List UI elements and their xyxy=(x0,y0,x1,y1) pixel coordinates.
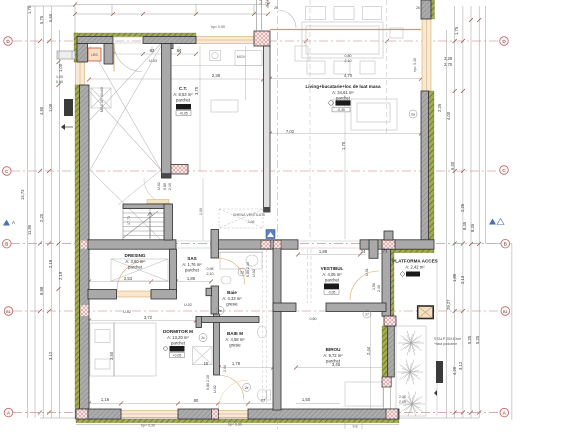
grid bubble B1 right xyxy=(501,307,510,316)
svg-text:MGV: MGV xyxy=(237,55,246,59)
boiler fixture outside left wall xyxy=(57,51,75,59)
kitchen island xyxy=(211,100,238,112)
stair arrow xyxy=(148,212,153,238)
wall central vertical lower xyxy=(273,248,281,410)
svg-text:2,36: 2,36 xyxy=(399,395,406,399)
svg-text:1,78: 1,78 xyxy=(232,361,241,366)
svg-text:A: 4,58 m²: A: 4,58 m² xyxy=(225,337,245,342)
upper storey wall above pier (light) xyxy=(257,0,262,31)
svg-text:1,88: 1,88 xyxy=(319,249,328,254)
grid axis A dashed line xyxy=(13,412,500,414)
svg-text:SAS: SAS xyxy=(187,256,196,261)
right dimension chain lines xyxy=(447,6,512,420)
insulation left wall upper xyxy=(74,33,78,62)
svg-text:GHENA VENTILATII: GHENA VENTILATII xyxy=(233,213,265,217)
svg-text:U-01: U-01 xyxy=(365,268,369,276)
column pier hall (pink hatch) xyxy=(171,165,188,175)
column pier bottom wall right (pink hatch) xyxy=(386,409,398,419)
wall top-left pier vertical xyxy=(104,44,113,65)
svg-text:9,8: 9,8 xyxy=(353,425,358,429)
svg-text:hp= 0,30: hp= 0,30 xyxy=(141,424,155,428)
door arc baie upper xyxy=(219,259,245,285)
svg-text:parchet: parchet xyxy=(325,278,340,283)
room label birou xyxy=(323,347,343,364)
svg-text:U-03: U-03 xyxy=(149,59,157,63)
svg-text:0,98: 0,98 xyxy=(207,267,214,271)
sofa xyxy=(351,99,397,130)
svg-text:2,53: 2,53 xyxy=(124,276,133,281)
svg-text:5,75: 5,75 xyxy=(39,15,44,24)
kitchen counter top xyxy=(235,51,262,66)
circle marker 2a xyxy=(409,110,417,118)
svg-text:2e: 2e xyxy=(218,309,222,313)
svg-text:5,25: 5,25 xyxy=(475,335,480,344)
section marker bar right xyxy=(434,361,443,396)
circle marker 2e xyxy=(243,383,251,391)
blue section triangles right xyxy=(489,219,504,225)
grid bubble D right xyxy=(500,37,509,46)
wall vestibul-birou segment right xyxy=(326,303,386,312)
wall bottom segment 2 xyxy=(178,409,218,419)
section marker bar left xyxy=(61,99,73,130)
wall baie M left xyxy=(214,314,220,375)
circle marker 2c xyxy=(199,334,207,342)
dimension tick marks right chain xyxy=(453,18,482,415)
svg-text:LEG: LEG xyxy=(91,53,98,57)
svg-text:3,75: 3,75 xyxy=(194,86,199,95)
insulation left wall lower xyxy=(75,85,80,419)
svg-text:11,95: 11,95 xyxy=(27,224,32,235)
dimension tick marks left chain xyxy=(38,39,61,415)
insulation right wall top xyxy=(431,0,435,19)
svg-text:BIROU: BIROU xyxy=(326,347,341,352)
wall sas-baie vertical upper xyxy=(211,230,219,259)
label stalp xyxy=(434,337,461,346)
C.T. floor cross hatch xyxy=(90,46,161,170)
desk birou xyxy=(345,382,383,406)
wall dresing bottom left xyxy=(88,290,117,300)
svg-text:4,20: 4,20 xyxy=(452,366,457,375)
column pier bottom wall sas (pink hatch) xyxy=(212,409,219,419)
svg-text:U-02: U-02 xyxy=(157,182,161,190)
room label dresing xyxy=(125,253,146,270)
svg-text:U-02: U-02 xyxy=(213,385,217,393)
wall right main xyxy=(421,91,429,249)
wall central vertical upper xyxy=(264,46,271,212)
svg-text:6,50: 6,50 xyxy=(450,161,455,170)
svg-text:A: 9,72 m²: A: 9,72 m² xyxy=(323,353,343,358)
svg-text:0,60: 0,60 xyxy=(310,317,317,321)
svg-text:26: 26 xyxy=(274,6,278,10)
svg-text:2,65: 2,65 xyxy=(399,400,406,404)
column pier top (pink hatch) xyxy=(254,31,270,46)
right outer boundary with step xyxy=(486,6,512,420)
svg-text:2,10: 2,10 xyxy=(168,183,172,190)
shrub 2 xyxy=(397,360,423,385)
svg-text:84: 84 xyxy=(177,48,182,53)
svg-text:1,56: 1,56 xyxy=(372,283,376,290)
wall stub above B right xyxy=(384,231,393,240)
svg-text:B: B xyxy=(504,242,507,247)
svg-text:1,50: 1,50 xyxy=(302,397,311,402)
insulation bottom wall xyxy=(76,419,399,423)
svg-text:2,00: 2,00 xyxy=(199,208,203,215)
platforma acces outline xyxy=(396,326,426,416)
bed dormitor M xyxy=(90,323,156,376)
svg-text:2,19: 2,19 xyxy=(48,259,53,268)
svg-text:hp= 5,30: hp= 5,30 xyxy=(413,58,417,72)
right rotated dimension texts xyxy=(437,26,480,375)
wall sas-baie vertical lower xyxy=(211,286,219,314)
svg-text:gresie: gresie xyxy=(226,302,238,307)
svg-text:1,75: 1,75 xyxy=(454,26,459,35)
window top wall hp=0,90 xyxy=(196,37,254,44)
door arc hall xyxy=(144,179,169,204)
svg-text:1,75: 1,75 xyxy=(27,5,32,14)
svg-text:3,45: 3,45 xyxy=(332,362,341,367)
wardrobe dormitor with X xyxy=(193,347,213,365)
dining chairs bottom row xyxy=(307,61,325,74)
wall cap right window end xyxy=(421,91,429,96)
svg-text:hp= 0,90: hp= 0,90 xyxy=(228,423,242,427)
svg-text:VESTIBUL: VESTIBUL xyxy=(321,266,344,271)
svg-text:3,12: 3,12 xyxy=(48,351,53,360)
svg-text:A: 8,53 m²: A: 8,53 m² xyxy=(173,92,193,97)
grid axis D dashed line xyxy=(13,40,500,42)
svg-text:+0,05: +0,05 xyxy=(179,112,188,116)
sink baie M xyxy=(258,326,267,338)
svg-text:1,85: 1,85 xyxy=(452,273,457,282)
svg-text:83: 83 xyxy=(150,48,155,53)
grid bubble B1 left xyxy=(4,307,13,316)
thin lines above top-left door xyxy=(113,37,143,43)
room label sas xyxy=(182,256,202,273)
svg-text:2c: 2c xyxy=(201,336,205,340)
svg-text:4,00: 4,00 xyxy=(446,111,451,120)
svg-text:0,60: 0,60 xyxy=(56,80,63,84)
grid bubble A left xyxy=(4,408,13,417)
wall B segment left xyxy=(88,240,176,249)
circle marker baie xyxy=(238,268,246,276)
grid axis C dashed line xyxy=(11,170,500,172)
svg-text:5,65: 5,65 xyxy=(48,13,53,22)
bottom dimension chain lines xyxy=(40,418,479,429)
svg-text:DRESING: DRESING xyxy=(125,253,146,258)
sink baie upper xyxy=(221,276,231,284)
grid axis vertical dashed line xyxy=(277,0,279,429)
svg-text:2,66: 2,66 xyxy=(248,220,255,224)
door opening dresing (tan) xyxy=(117,291,151,297)
svg-text:0,80 2,10: 0,80 2,10 xyxy=(246,262,250,277)
wardrobe dresing with X xyxy=(111,259,168,281)
wall left main xyxy=(80,85,89,409)
circle marker entry xyxy=(363,310,371,318)
svg-text:2e: 2e xyxy=(245,386,249,390)
window bottom wall baie M hp=0,90 xyxy=(218,411,248,418)
stairs xyxy=(123,209,164,241)
chair right of table xyxy=(390,28,403,38)
wall top middle segment xyxy=(143,37,196,44)
wall baie M top xyxy=(196,317,259,323)
lintel band above living (terrace edge) xyxy=(270,29,421,31)
interior dimension tick slashes xyxy=(73,3,423,406)
window left wall xyxy=(76,62,85,85)
room label platforma acces xyxy=(392,259,438,277)
svg-text:4,70: 4,70 xyxy=(344,73,353,78)
svg-text:2,70: 2,70 xyxy=(444,62,453,67)
wall B segment middle xyxy=(211,240,298,249)
top frame tick xyxy=(267,0,269,8)
svg-text:73: 73 xyxy=(383,249,388,254)
insulation right wall mid xyxy=(429,91,435,244)
svg-text:2,13: 2,13 xyxy=(460,275,465,284)
dining table xyxy=(302,22,383,58)
svg-text:1,00: 1,00 xyxy=(56,75,63,79)
svg-text:STALP 25X40cm: STALP 25X40cm xyxy=(434,337,461,341)
grid bubble B right xyxy=(501,239,510,248)
wall top-left segment xyxy=(77,37,113,44)
svg-text:B1: B1 xyxy=(6,310,11,314)
svg-text:U-02: U-02 xyxy=(252,269,256,277)
wall dresing right xyxy=(170,249,177,292)
wall stub below top middle xyxy=(165,44,173,49)
svg-text:4,90: 4,90 xyxy=(39,106,44,115)
room label baie M xyxy=(225,331,245,348)
wall cap hall xyxy=(162,174,172,179)
svg-text:C.T.: C.T. xyxy=(179,86,187,91)
svg-text:3,50: 3,50 xyxy=(109,351,114,360)
blue shaft marker xyxy=(266,230,275,239)
wall B segment right xyxy=(360,240,434,249)
grid bubble C left xyxy=(3,167,12,176)
svg-text:DORMITOR M: DORMITOR M xyxy=(163,329,193,334)
svg-text:2,48: 2,48 xyxy=(265,0,269,4)
window bottom wall dormitor hp=0,30 xyxy=(121,411,178,418)
shrub 3 xyxy=(399,392,425,417)
door arc entry D-01 xyxy=(350,271,379,300)
svg-text:1,00: 1,00 xyxy=(58,63,63,72)
svg-text:-0,05: -0,05 xyxy=(328,291,336,295)
left dimension chain lines xyxy=(28,6,60,418)
svg-text:8,45: 8,45 xyxy=(462,221,467,230)
svg-text:2,26: 2,26 xyxy=(437,103,442,112)
svg-text:A: 3,60 m²: A: 3,60 m² xyxy=(125,259,145,264)
svg-text:2,38: 2,38 xyxy=(212,73,221,78)
door arc terrace xyxy=(278,10,296,28)
dashed vertical line living right xyxy=(386,0,388,135)
door arc bottom baie M exterior xyxy=(219,380,248,409)
room label vestibul xyxy=(321,266,344,295)
svg-text:MAS.SP. 60x60: MAS.SP. 60x60 xyxy=(100,87,104,112)
pier hatch central wall at B xyxy=(274,240,282,249)
pier hatch ghena at B xyxy=(261,240,271,249)
wall left upper below corner xyxy=(77,44,88,63)
svg-text:A: 34,61 m²: A: 34,61 m² xyxy=(332,90,354,95)
svg-text:3,12: 3,12 xyxy=(458,361,463,370)
dashed vertical line vestibul xyxy=(307,249,309,303)
svg-text:Living+bucatarie+loc de luat m: Living+bucatarie+loc de luat masa xyxy=(305,84,381,89)
grid axis B dashed line xyxy=(11,243,501,245)
window right wall (living big window) xyxy=(422,19,431,91)
wall birou right xyxy=(382,249,391,316)
STALP column box xyxy=(418,306,434,319)
svg-text:2,25: 2,25 xyxy=(39,213,44,222)
interior dimension lines xyxy=(89,46,421,409)
svg-text:5,25: 5,25 xyxy=(467,335,472,344)
wall stair top xyxy=(123,204,172,209)
svg-text:+0,05: +0,05 xyxy=(173,354,182,358)
svg-text:8,45: 8,45 xyxy=(470,223,475,232)
top dimension chain line xyxy=(28,5,269,34)
room label baie xyxy=(222,290,242,307)
shaft dashed lines along central wall xyxy=(262,250,264,405)
dining chairs top row xyxy=(306,7,326,20)
label ghena ventilatii xyxy=(233,213,265,224)
toilet baie M xyxy=(258,389,267,401)
svg-text:7,02: 7,02 xyxy=(286,129,295,134)
grid bubble D left xyxy=(4,37,13,46)
dim texts horizontal xyxy=(101,25,406,429)
svg-text:2,19: 2,19 xyxy=(58,271,63,280)
door leaf hall (tan) xyxy=(147,200,169,204)
svg-text:0,80: 0,80 xyxy=(163,183,167,190)
insulation below B wall right xyxy=(391,249,434,253)
thin lines B wall door gaps xyxy=(176,241,360,248)
door arc dresing xyxy=(117,261,146,290)
dashed vertical shaft line xyxy=(309,0,311,239)
wall bottom segment 1 xyxy=(88,409,121,419)
grid axis B1 dashed line xyxy=(13,310,501,312)
svg-text:1,88: 1,88 xyxy=(187,276,196,281)
wall kitchen vertical (C.T. right) xyxy=(162,44,172,179)
svg-text:34: 34 xyxy=(361,249,366,254)
corner pier bottom-left (pink hatch) xyxy=(76,409,88,419)
insulation top wall xyxy=(74,33,196,37)
room label dormitor M xyxy=(163,329,193,358)
svg-text:A: 4,33 m²: A: 4,33 m² xyxy=(222,296,242,301)
svg-text:parchet: parchet xyxy=(336,96,351,101)
room label C.T. xyxy=(173,86,193,116)
svg-text:15: 15 xyxy=(204,361,209,366)
svg-text:1,97: 1,97 xyxy=(259,0,263,4)
blue section triangles left xyxy=(3,220,15,226)
wall cap central vertical xyxy=(264,207,271,212)
column pier B right (pink hatch) xyxy=(382,240,395,249)
top small dimension texts xyxy=(259,0,420,10)
wall vestibul right upper xyxy=(369,240,378,258)
svg-text:PLATFORMA ACCES: PLATFORMA ACCES xyxy=(392,259,438,264)
shrub 1 xyxy=(398,331,424,356)
svg-text:27: 27 xyxy=(365,313,369,317)
svg-text:B1: B1 xyxy=(503,310,508,314)
grid bubble B left xyxy=(3,239,12,248)
left rotated dimension texts xyxy=(20,5,63,360)
svg-text:hp= 0,90: hp= 0,90 xyxy=(211,25,225,29)
wall bottom segment 3 xyxy=(248,409,399,419)
svg-text:Baie: Baie xyxy=(227,290,237,295)
svg-text:A: 13,20 m²: A: 13,20 m² xyxy=(167,335,189,340)
svg-text:2,44: 2,44 xyxy=(366,346,371,355)
svg-text:2d: 2d xyxy=(240,271,244,275)
svg-text:3,72: 3,72 xyxy=(144,315,153,320)
svg-text:77: 77 xyxy=(261,398,266,403)
wall stub baie M top left xyxy=(196,317,202,328)
svg-text:parchet: parchet xyxy=(171,341,186,346)
svg-text:29,27: 29,27 xyxy=(446,299,451,310)
wall stub sas-baie left xyxy=(206,288,212,296)
svg-text:2,28: 2,28 xyxy=(444,56,453,61)
pier hatch left wall at B xyxy=(81,241,95,249)
svg-text:80: 80 xyxy=(194,398,199,403)
svg-text:parchet: parchet xyxy=(128,265,143,270)
insulation right of birou wall xyxy=(390,253,394,326)
room label living xyxy=(305,84,381,112)
svg-text:A: 1,76 m²: A: 1,76 m² xyxy=(182,262,202,267)
svg-text:A: 2,42 m²: A: 2,42 m² xyxy=(405,265,425,270)
ghena ventilatii dashed box xyxy=(219,209,263,228)
svg-text:14,73: 14,73 xyxy=(20,189,25,200)
svg-text:26: 26 xyxy=(416,6,420,10)
LEG shaft box xyxy=(88,48,101,61)
column pier birou right (pink hatch) xyxy=(384,316,396,326)
pier hatch left wall at B1 xyxy=(81,305,89,316)
dim texts vertical xyxy=(109,58,417,372)
svg-text:A: A xyxy=(12,220,15,225)
svg-text:parchet: parchet xyxy=(185,268,200,273)
wall dresing bottom right xyxy=(151,290,177,300)
svg-text:1,75: 1,75 xyxy=(341,141,346,150)
svg-text:2a: 2a xyxy=(411,113,415,117)
svg-text:0,80 2,10: 0,80 2,10 xyxy=(206,375,210,390)
bathtub baie upper xyxy=(220,252,262,269)
svg-text:2,10: 2,10 xyxy=(207,272,214,276)
grid bubble C right xyxy=(500,166,509,175)
wall vestibul-birou segment left xyxy=(273,303,296,312)
svg-text:U-02: U-02 xyxy=(123,310,131,314)
svg-text:1,16: 1,16 xyxy=(101,397,110,402)
svg-text:-0,45: -0,45 xyxy=(337,108,345,112)
svg-text:1,00: 1,00 xyxy=(48,103,53,112)
door arc C.T. entry xyxy=(114,44,142,72)
wall stair right xyxy=(164,204,173,240)
svg-text:A: 4,05 m²: A: 4,05 m² xyxy=(322,272,342,277)
svg-text:parchet: parchet xyxy=(176,98,191,103)
svg-text:2,10: 2,10 xyxy=(345,59,352,63)
svg-text:2,40: 2,40 xyxy=(377,285,381,292)
svg-text:+fara podotele: +fara podotele xyxy=(434,342,457,346)
svg-text:0,80: 0,80 xyxy=(345,54,352,58)
washing machine C.T. xyxy=(91,88,111,108)
svg-text:17,73: 17,73 xyxy=(127,216,131,225)
svg-text:gresie: gresie xyxy=(229,343,241,348)
svg-text:2,25: 2,25 xyxy=(460,203,465,212)
svg-text:8,98: 8,98 xyxy=(39,286,44,295)
door arc baie M xyxy=(220,376,244,400)
wall birou right lower (green+gray) xyxy=(382,326,394,409)
door labels xyxy=(56,54,381,393)
grid bubble A right xyxy=(500,408,509,417)
wall right top block xyxy=(421,0,431,19)
svg-text:U-02: U-02 xyxy=(184,303,192,307)
circle marker sas door xyxy=(216,307,224,315)
svg-text:B: B xyxy=(5,242,8,247)
svg-text:2,06: 2,06 xyxy=(223,365,227,372)
svg-text:BAIE M: BAIE M xyxy=(227,331,243,336)
